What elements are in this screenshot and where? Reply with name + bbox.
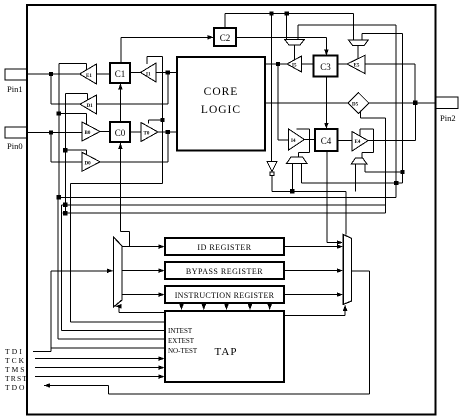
TAP controller block (165, 311, 284, 382)
wire enable bus for D1/D0 (64, 94, 66, 214)
svg-text:C1: C1 (115, 69, 126, 79)
svg-text:TDO: TDO (5, 383, 26, 392)
wire TMS input (35, 365, 165, 370)
wire C1 to I1 (130, 72, 141, 74)
driver D1 (80, 95, 97, 114)
label TRST (5, 374, 28, 383)
boundary scan cell C3 (314, 56, 338, 77)
input buffer E5 (347, 55, 365, 73)
wire Pin1 feedback down (50, 74, 52, 104)
wire scan C2 to C3 (236, 37, 329, 55)
wire TRST input (35, 374, 165, 379)
wire I5 mux input 1 (286, 14, 288, 40)
wire I4 mux input 2 (301, 164, 303, 184)
junction B0 enable tap (57, 111, 61, 115)
wire MUX1 to ID register (122, 244, 165, 249)
wire control vertical x402 (401, 34, 403, 184)
junction bus B node (57, 195, 61, 199)
wire control bus D (63, 212, 386, 214)
svg-text:TAP: TAP (215, 346, 238, 358)
output driver E1 (80, 64, 97, 84)
junction T0 enable node (160, 118, 164, 122)
svg-text:INTEST: INTEST (168, 327, 193, 335)
label TMS (5, 365, 26, 374)
svg-text:Pin2: Pin2 (440, 113, 456, 123)
boundary scan cell C4 (315, 129, 338, 151)
ID register (165, 238, 284, 255)
core logic block (177, 57, 265, 151)
wire top control bus (225, 13, 353, 15)
pad driver D5 (348, 93, 369, 114)
wire scan C1 to C2 (121, 35, 214, 63)
wire E1 input from C1 (97, 73, 111, 75)
wire D5 enable drop (361, 111, 386, 214)
buffer I1 (141, 63, 157, 82)
junction D0 enable tap (63, 148, 67, 152)
wire bus C to TAP (62, 205, 166, 331)
wire enable bus for E1/B0 (58, 63, 60, 197)
junction Pin2 node (413, 101, 417, 105)
wire INTEST enable bus (161, 56, 163, 183)
wire scan into C0 from MUX1 (118, 143, 129, 247)
svg-text:C2: C2 (220, 33, 231, 43)
wire core to D5 (265, 102, 348, 104)
svg-text:B0: B0 (85, 131, 91, 136)
wire C0 to T0 (130, 131, 141, 133)
junction Pin1 node (49, 72, 53, 76)
svg-text:I4: I4 (291, 139, 296, 144)
buffer I5 (287, 56, 302, 72)
inverter (267, 161, 277, 175)
buffer I4 (288, 129, 304, 150)
pin Pin2 (436, 97, 458, 123)
wire mode line upper (298, 25, 396, 39)
pin Pin0 (5, 127, 27, 151)
wire T0 to core logic (158, 131, 177, 133)
wire C3 to E5 apex (338, 63, 348, 65)
wire INTEST bus to TAP (71, 183, 166, 321)
wire tap down to I4 (278, 64, 289, 140)
enable mux for E5 (348, 40, 368, 46)
svg-text:E4: E4 (355, 140, 361, 145)
svg-text:C0: C0 (115, 128, 126, 138)
wire mode bus right vertical (395, 25, 397, 197)
svg-text:INSTRUCTION REGISTER: INSTRUCTION REGISTER (175, 291, 275, 300)
junction node I5 tap (276, 62, 280, 66)
svg-text:D0: D0 (85, 162, 92, 167)
svg-text:EXTEST: EXTEST (168, 337, 195, 345)
wire core input from I5 (265, 63, 287, 65)
instruction register (165, 286, 284, 303)
wire E5 mux input 2 (362, 34, 402, 40)
svg-text:I1: I1 (146, 73, 151, 78)
enable mux for I4 (287, 157, 308, 164)
wire MUX1 to bypass register (122, 268, 165, 273)
boundary scan cell C2 (214, 28, 236, 46)
svg-text:NO-TEST: NO-TEST (168, 347, 198, 355)
scan input demultiplexer MUX1 (114, 237, 123, 307)
TDO output multiplexer MUX2 (343, 235, 351, 305)
svg-text:T0: T0 (144, 132, 150, 137)
svg-text:TMS: TMS (5, 365, 26, 374)
wire bypass register to MUX2 (284, 268, 343, 273)
wire INTEST bus segment (71, 182, 163, 184)
junction inverter tap (269, 11, 273, 15)
svg-text:Pin0: Pin0 (7, 141, 23, 151)
wire TDI branch to TAP (51, 347, 165, 349)
wire mode bus right segment (302, 182, 403, 184)
wire I4 mux input 1 (291, 164, 293, 192)
svg-text:C3: C3 (320, 62, 331, 72)
junction bus C node (63, 203, 67, 207)
wire I5 base to C3 (302, 63, 314, 65)
boundary scan cell C0 (110, 122, 130, 142)
wire D0 output up to core net (100, 132, 168, 162)
boundary scan cell C1 (110, 63, 130, 83)
svg-text:ID REGISTER: ID REGISTER (197, 243, 251, 252)
wire scan C0 to C1 (118, 83, 123, 122)
svg-text:TDI: TDI (5, 347, 24, 356)
wire core output down to D1 (97, 73, 168, 105)
junction node I1-core (166, 70, 170, 74)
junction E4 mux tap (400, 170, 404, 174)
svg-text:C4: C4 (321, 136, 332, 146)
buffer T0 (141, 123, 158, 142)
wire MUX1 to instruction register (122, 292, 165, 297)
enable mux for I5 (285, 39, 305, 45)
junction bus D node (63, 211, 67, 215)
label TCK (5, 356, 26, 365)
junction I5 mux tap (285, 11, 289, 15)
junction node T0-core (166, 130, 170, 134)
wire E4 enable route (360, 129, 373, 158)
svg-text:BYPASS REGISTER: BYPASS REGISTER (186, 267, 263, 276)
wire E5 mux output (357, 46, 359, 59)
wire Pin0 to D0 (51, 133, 82, 162)
junction I4 mux input node (290, 189, 294, 193)
svg-text:Pin1: Pin1 (7, 84, 23, 94)
wire ID register to MUX2 (284, 244, 343, 249)
wire E1 enable loop (59, 63, 87, 70)
wire control bus B (58, 196, 396, 198)
junction mode bus node (394, 181, 398, 185)
bypass register (165, 262, 284, 279)
wire I4 enable route (296, 129, 309, 157)
wire scan C3 to C4 (324, 77, 329, 129)
wire I1 enable loop (147, 56, 162, 63)
input buffer B0 (82, 122, 100, 141)
svg-text:LOGIC: LOGIC (201, 104, 241, 116)
svg-text:D5: D5 (352, 103, 359, 108)
wire D1 enable loop (65, 94, 87, 101)
wire boundary scan return to MUX2 (327, 151, 343, 245)
wire E5 base from Pin2 net (365, 64, 415, 103)
junction Pin0 node (49, 130, 53, 134)
wire E4 mux input 1 (355, 164, 357, 191)
wire B0 enable loop (59, 114, 87, 125)
label TDO (5, 383, 26, 392)
wire TDI input (33, 269, 113, 352)
svg-text:I5: I5 (292, 64, 297, 69)
pin Pin1 (5, 69, 27, 94)
wire inverter input (271, 14, 273, 162)
wire I5 mux output (294, 45, 296, 60)
wire bus B to TAP (58, 197, 165, 339)
svg-text:E5: E5 (354, 64, 360, 69)
wire D1 output to Pin1 net (51, 103, 80, 105)
wire TCK input (35, 356, 165, 361)
output driver E4 (352, 132, 368, 152)
wire C4 to E4 (338, 139, 353, 141)
wire Pin1 net (27, 73, 80, 75)
input buffer D0 (82, 152, 100, 171)
wire TDO output (44, 271, 370, 394)
wire E4 mux input 2 (365, 164, 402, 172)
svg-text:TCK: TCK (5, 356, 26, 365)
wires instruction register to TAP (179, 303, 272, 310)
svg-text:D1: D1 (87, 104, 94, 109)
enable mux for E4 (351, 158, 367, 164)
wire I4 apex to C4 (304, 139, 315, 141)
wire inverter output (272, 175, 346, 234)
wire Pin0 net (27, 132, 82, 134)
wire C2 output to control bus (224, 14, 226, 29)
wire control bus C (62, 204, 386, 206)
wire MUX2 select from TAP (284, 305, 347, 316)
wire E5 mux input 1 (352, 14, 354, 40)
svg-text:CORE: CORE (204, 86, 239, 98)
svg-text:E1: E1 (86, 74, 92, 79)
wire I1 base from core logic (156, 72, 177, 74)
wire E4 output to Pin2 net (368, 103, 416, 141)
svg-text:TRST: TRST (5, 374, 28, 383)
wire B0 to C0 (100, 131, 110, 133)
label TDI (5, 347, 24, 356)
wire MUX1 select from TAP (115, 304, 165, 313)
wire instruction register to MUX2 (284, 292, 343, 297)
wire D5 to Pin2 (369, 102, 436, 104)
wire T0 enable tap (149, 120, 163, 124)
wire D0 enable loop (65, 150, 86, 155)
